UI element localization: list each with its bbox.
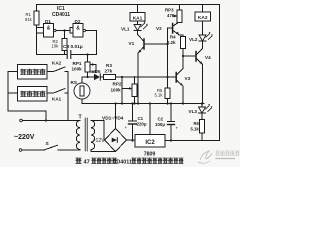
- svg-text:C2: C2: [158, 117, 164, 122]
- svg-text:C1: C1: [138, 116, 144, 121]
- block dryer device box: [18, 65, 48, 80]
- svg-text:V1: V1: [129, 41, 135, 46]
- diode VD5: [94, 74, 100, 80]
- svg-text:100μ: 100μ: [155, 122, 165, 127]
- wire +9V bottom line from IC2 output: [165, 140, 220, 142]
- wire D2 output down: [86, 31, 97, 55]
- svg-text:~12V: ~12V: [93, 138, 106, 144]
- wire D1 input stubs: [37, 28, 44, 34]
- wire V4 base: [183, 55, 196, 57]
- svg-text:R4: R4: [170, 35, 176, 40]
- sensor RS (humidity): [74, 83, 90, 99]
- svg-text:R3: R3: [106, 63, 112, 68]
- svg-text:+: +: [176, 126, 179, 131]
- svg-text:100k: 100k: [72, 67, 83, 72]
- svg-text:~220V: ~220V: [14, 134, 35, 141]
- svg-text:VL3: VL3: [189, 109, 198, 114]
- wire bridge plus to IC2: [127, 139, 136, 141]
- svg-text:2.2k: 2.2k: [167, 40, 176, 45]
- capacitor C1 220u: [132, 104, 134, 141]
- svg-text:47: 47: [84, 160, 90, 166]
- switch KA1 contact: [47, 89, 68, 94]
- svg-text:100k: 100k: [111, 87, 122, 92]
- transistor V4: [195, 52, 197, 62]
- svg-text:T: T: [79, 115, 83, 121]
- capacitor C2 100u: [170, 104, 172, 141]
- wire primary bottom: [79, 149, 81, 152]
- svg-text:R6: R6: [194, 121, 200, 126]
- resistor R1: [36, 5, 38, 55]
- resistor R3 27k: [104, 75, 116, 80]
- wire D1 out to D2 in: [56, 28, 73, 34]
- regulator IC2 7809: [135, 135, 165, 148]
- resistor R6 5.1k: [201, 113, 203, 141]
- svg-text:V4: V4: [205, 55, 211, 60]
- potentiometer RP3 470: [179, 5, 181, 23]
- node AC terminal bottom: [19, 149, 22, 152]
- svg-text:VD5: VD5: [92, 69, 101, 74]
- wire divider drop: [121, 77, 123, 104]
- svg-text:&: &: [76, 25, 80, 31]
- svg-text:+: +: [125, 125, 128, 130]
- potentiometer RP1 100k: [87, 55, 89, 77]
- svg-text:VL1: VL1: [121, 27, 130, 32]
- wire +9V top rail: [37, 4, 220, 6]
- LED VL1: [137, 21, 139, 25]
- svg-text:KA1: KA1: [52, 96, 62, 101]
- svg-text:10k: 10k: [52, 44, 60, 49]
- svg-text:VD1~VD4: VD1~VD4: [102, 116, 124, 122]
- svg-text:7809: 7809: [144, 152, 156, 158]
- svg-text:RP2: RP2: [113, 82, 122, 87]
- svg-text:5.1k: 5.1k: [191, 127, 200, 132]
- svg-text:CD4011: CD4011: [52, 12, 70, 18]
- transistor V1: [138, 35, 144, 42]
- svg-text:KA2: KA2: [52, 60, 62, 65]
- resistor R4 2.2k: [179, 35, 183, 56]
- svg-text:IC2: IC2: [145, 140, 155, 146]
- relay coil KA2: [202, 5, 204, 13]
- potentiometer RP2 100k: [134, 77, 136, 104]
- svg-text:V3: V3: [185, 76, 191, 81]
- svg-text:KA2: KA2: [198, 15, 208, 21]
- wire bridge minus up to ground rail: [115, 104, 117, 129]
- wire sense node: [82, 76, 94, 78]
- wire secondary leads: [91, 121, 105, 141]
- svg-text:CD4011: CD4011: [113, 160, 132, 166]
- transistor V3: [175, 73, 177, 83]
- watermark logo: [198, 151, 212, 163]
- wire contacts common: [67, 72, 69, 121]
- svg-text:V2: V2: [156, 26, 162, 31]
- LED VL3: [201, 104, 203, 108]
- node AC terminal top: [20, 119, 23, 122]
- transistor V2: [168, 27, 173, 29]
- capacitor C3 0.01u: [67, 51, 71, 59]
- svg-text:91k: 91k: [25, 17, 33, 22]
- wire base bus x168: [167, 28, 169, 104]
- wire left feed loop: [8, 72, 46, 121]
- caption figure 47: [76, 158, 184, 166]
- wire ground rail: [82, 103, 204, 105]
- resistor R2 10k: [64, 31, 66, 55]
- svg-text:5.1k: 5.1k: [155, 93, 164, 98]
- wire right border (+9V feed): [219, 5, 221, 141]
- node rail junctions: [121, 102, 123, 104]
- resistor R5 5.1k: [165, 88, 170, 99]
- wire IC2 ground pin: [149, 104, 151, 135]
- svg-text:VL2: VL2: [189, 37, 198, 42]
- svg-text:KA1: KA1: [133, 15, 143, 21]
- svg-text:RP3: RP3: [165, 8, 174, 13]
- wire mains top: [22, 120, 80, 122]
- svg-text:RP1: RP1: [73, 61, 82, 66]
- wire sense line to V3 base: [116, 76, 177, 78]
- svg-text:&: &: [47, 25, 51, 31]
- wire feedback line: [37, 54, 97, 56]
- LED VL2: [202, 21, 204, 35]
- relay coil KA1: [137, 5, 139, 13]
- svg-text:220μ: 220μ: [137, 122, 147, 127]
- svg-text:27k: 27k: [105, 69, 113, 74]
- switch S: [22, 145, 80, 150]
- svg-text:RS: RS: [71, 80, 77, 85]
- block humidifier device box: [18, 87, 48, 102]
- svg-text:S: S: [46, 141, 50, 147]
- svg-text:470: 470: [167, 13, 175, 18]
- svg-text:C3 0.01μ: C3 0.01μ: [63, 44, 83, 50]
